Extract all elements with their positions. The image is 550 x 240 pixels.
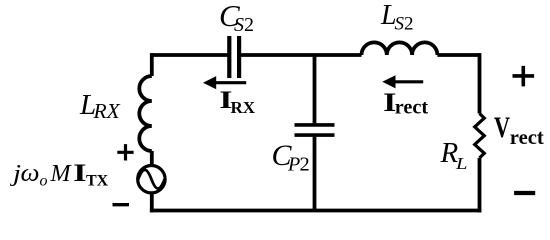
wire top-right horizontal (L_S2 to corner) [437, 53, 479, 57]
label L_S2 [380, 0, 414, 34]
svg-text:RX: RX [93, 99, 121, 123]
arrow I_rect (pointing left) [382, 75, 423, 88]
svg-text:I: I [73, 160, 86, 187]
label L_RX [79, 89, 121, 123]
wire C_P2 vertical top (top wire to plate) [313, 55, 317, 123]
minus sign (V_rect polarity) [514, 191, 535, 195]
wire right vertical top (corner to resistor) [478, 53, 482, 113]
source circle jwoMITX [138, 166, 165, 193]
plus sign (V_rect polarity) [513, 66, 535, 87]
svg-text:S: S [395, 14, 405, 35]
wire left vertical top (corner to L_RX) [150, 53, 154, 76]
svg-text:P: P [287, 154, 300, 176]
wire top middle (C_S2 to L_S2, through C_P2 tee) [239, 53, 361, 57]
svg-text:2: 2 [244, 14, 254, 36]
wire top-left horizontal (corner to C_S2 left plate) [152, 53, 229, 57]
inductor L_RX [139, 76, 152, 151]
plus sign (source polarity) [117, 144, 133, 160]
svg-text:2: 2 [404, 14, 414, 35]
svg-text:o: o [40, 173, 48, 190]
resistor R_L [475, 114, 485, 158]
svg-text:rect: rect [510, 125, 544, 149]
label jwoMITX [9, 160, 108, 189]
capacitor C_S2 [229, 36, 239, 78]
label I_RX [219, 87, 255, 117]
inductor L_S2 [362, 42, 438, 55]
svg-text:rect: rect [395, 97, 429, 119]
svg-text:ω: ω [21, 160, 40, 187]
label R_L [440, 137, 468, 173]
svg-text:L: L [455, 154, 468, 173]
svg-text:2: 2 [300, 154, 310, 176]
svg-text:V: V [494, 111, 510, 144]
label C_P2 [272, 139, 310, 176]
svg-text:TX: TX [86, 173, 109, 190]
source sine wave [138, 170, 164, 189]
svg-text:S: S [234, 14, 244, 36]
wire left vertical bottom (source to corner) [150, 193, 154, 212]
svg-text:RX: RX [231, 98, 256, 117]
wire right vertical bottom (resistor to corner) [478, 158, 482, 213]
wire bottom horizontal [150, 209, 482, 213]
capacitor C_P2 [295, 125, 335, 135]
minus sign (source polarity) [113, 203, 130, 206]
svg-text:M: M [50, 161, 73, 187]
wire C_P2 vertical bottom (plate to bottom wire) [313, 137, 317, 211]
arrow I_RX (pointing left) [203, 76, 246, 89]
wire left vertical (L_RX to source) [150, 151, 154, 166]
label V_rect [494, 111, 544, 149]
label C_S2 [219, 0, 254, 36]
label I_rect [383, 88, 428, 119]
